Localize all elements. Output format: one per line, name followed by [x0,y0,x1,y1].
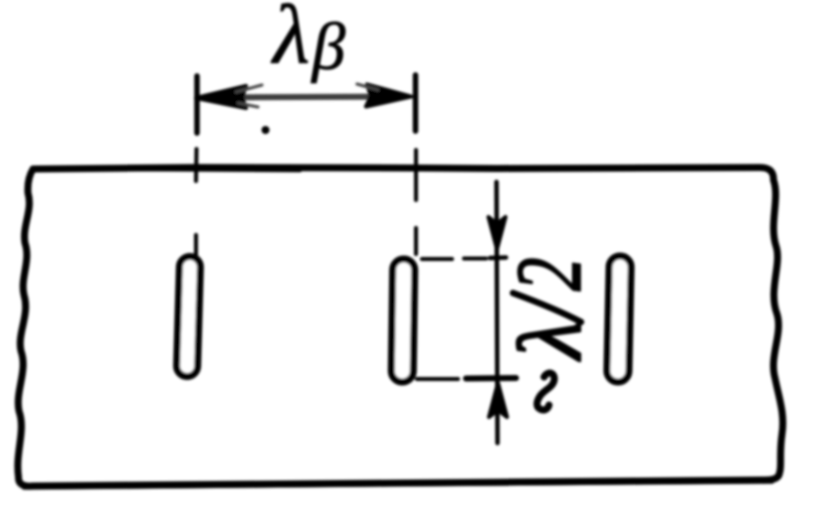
svg-text:2: 2 [497,258,600,291]
svg-text:λ: λ [270,0,310,82]
svg-text:β: β [310,10,346,84]
svg-text:λ: λ [501,320,600,362]
